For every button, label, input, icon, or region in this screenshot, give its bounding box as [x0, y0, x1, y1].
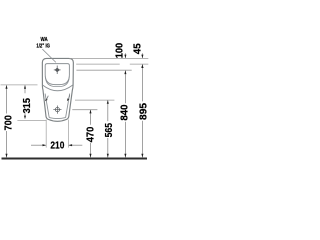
- urinal inner bowl: [45, 64, 69, 85]
- svg-text:210: 210: [50, 140, 64, 151]
- dimension 45 upper stub arrow: [141, 53, 143, 58]
- fixing level extension line: [75, 99, 114, 101]
- extension line B (rim inner level): [76, 63, 120, 65]
- drain level extension line: [72, 109, 97, 111]
- extension line C (WA level): [76, 69, 131, 71]
- 210 extension line left: [45, 120, 47, 148]
- extension line A (urinal top level): [70, 57, 149, 59]
- urinal inner taper line left: [45, 94, 49, 118]
- urinal inner bottom arc: [49, 117, 65, 120]
- dimension 700 line: [6, 85, 8, 113]
- 210 extension line right: [67, 120, 69, 148]
- urinal bowl bottom second line: [45, 77, 69, 87]
- dimension 210 left arrow: [31, 144, 46, 146]
- dimension 470 line: [90, 110, 92, 125]
- drain crosshair circle: [55, 108, 59, 112]
- leader line from label to WA marker: [42, 49, 56, 62]
- dimension 100 upper stub arrow: [124, 53, 126, 58]
- left bottom extension line (315 bottom): [17, 120, 46, 122]
- dimension 895 line: [141, 64, 143, 101]
- water inlet WA diamond marker: [55, 68, 60, 73]
- dimension 565 line: [107, 100, 109, 121]
- svg-text:315: 315: [22, 98, 33, 114]
- dimension 210 right arrow: [69, 144, 83, 146]
- dimension 45 lower arrow on 895 column: [141, 64, 143, 68]
- dimension 840 line: [124, 71, 126, 104]
- svg-text:840: 840: [119, 104, 130, 120]
- urinal rim bottom arc: [43, 85, 73, 91]
- svg-text:100: 100: [115, 43, 126, 59]
- svg-text:1/2" IG: 1/2" IG: [36, 43, 50, 49]
- svg-text:470: 470: [85, 126, 96, 142]
- WA marker vertical tick: [56, 66, 58, 75]
- left datum extension line (700/315 top): [1, 84, 38, 86]
- dimension 315 line: [24, 85, 26, 93]
- svg-text:895: 895: [138, 103, 149, 120]
- fixing arrow right: [67, 98, 69, 101]
- svg-text:45: 45: [132, 43, 143, 54]
- svg-text:700: 700: [4, 115, 15, 131]
- svg-text:565: 565: [104, 123, 115, 138]
- urinal inner taper line right: [66, 94, 70, 118]
- urinal outer rim silhouette: [42, 58, 73, 121]
- WA marker horizontal tick: [54, 69, 61, 71]
- fixing arrow left: [45, 99, 48, 102]
- svg-text:WA: WA: [41, 37, 49, 43]
- drain crosshair ticks: [53, 109, 61, 111]
- floor line: [2, 158, 148, 160]
